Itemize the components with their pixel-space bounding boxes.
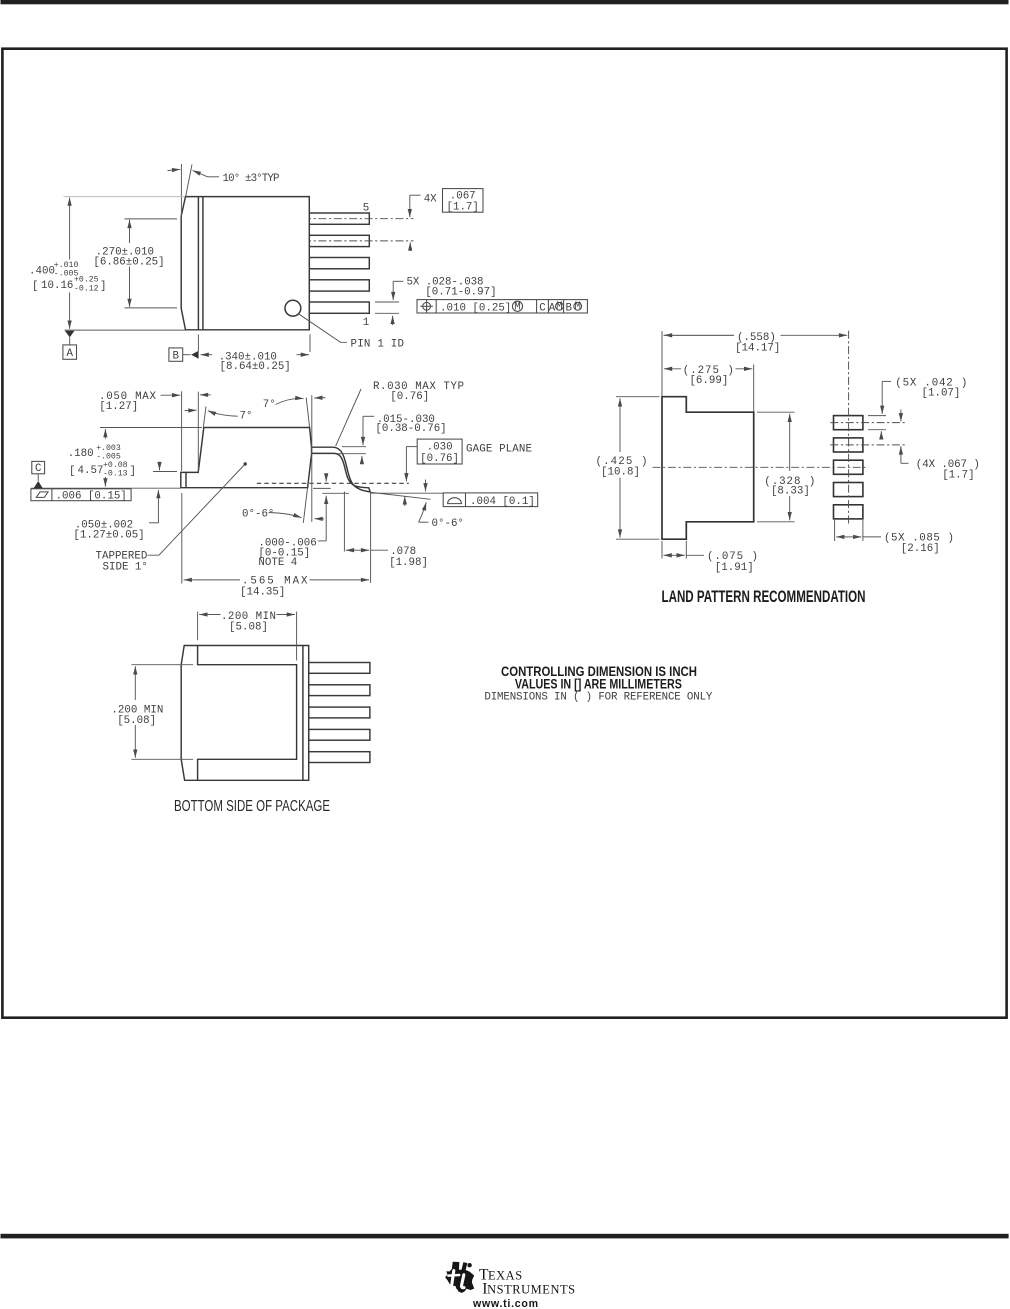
svg-text:+0.08: +0.08 <box>103 461 128 470</box>
svg-text:A: A <box>66 348 73 360</box>
svg-text:7°: 7° <box>263 399 276 411</box>
svg-text:NOTE 4: NOTE 4 <box>258 557 297 569</box>
svg-text:[14.17]: [14.17] <box>735 342 780 354</box>
svg-text:]: ] <box>100 281 106 293</box>
svg-text:4X: 4X <box>424 194 437 206</box>
svg-text:-0.12: -0.12 <box>74 285 99 294</box>
svg-text:[1.27]: [1.27] <box>99 401 138 413</box>
svg-text:[1.98]: [1.98] <box>389 557 428 569</box>
svg-text:PIN 1 ID: PIN 1 ID <box>351 338 405 350</box>
svg-text:A: A <box>549 302 556 314</box>
svg-text:4.57: 4.57 <box>78 465 104 477</box>
svg-text:0°-6°: 0°-6° <box>242 508 274 520</box>
svg-text:[0.38-0.76]: [0.38-0.76] <box>375 423 446 435</box>
svg-text:+.010: +.010 <box>54 261 79 270</box>
svg-text:0°-6°: 0°-6° <box>432 518 464 530</box>
svg-text:+.003: +.003 <box>96 444 121 453</box>
svg-text:VALUES IN [] ARE MILLIMETERS: VALUES IN [] ARE MILLIMETERS <box>515 677 682 692</box>
svg-text:[8.33]: [8.33] <box>771 485 810 497</box>
svg-text:[1.27±0.05]: [1.27±0.05] <box>73 530 144 542</box>
svg-text:[5.08]: [5.08] <box>229 621 268 633</box>
svg-text:C: C <box>539 302 546 314</box>
svg-text:[: [ <box>32 281 38 293</box>
svg-text:M: M <box>574 301 580 313</box>
svg-text:SIDE 1°: SIDE 1° <box>103 561 148 573</box>
svg-text:.180: .180 <box>68 448 94 460</box>
svg-text:1: 1 <box>363 317 369 329</box>
svg-text:[1.07]: [1.07] <box>922 388 961 400</box>
svg-text:.400: .400 <box>29 265 55 277</box>
svg-text:[14.35]: [14.35] <box>240 587 285 599</box>
svg-text:INSTRUMENTS: INSTRUMENTS <box>482 1281 575 1298</box>
svg-text:GAGE PLANE: GAGE PLANE <box>466 444 532 456</box>
svg-text:BOTTOM SIDE OF PACKAGE: BOTTOM SIDE OF PACKAGE <box>174 798 330 815</box>
svg-text:.006 [0.15]: .006 [0.15] <box>56 491 127 503</box>
svg-text:[1.7]: [1.7] <box>942 470 974 482</box>
svg-text:www.ti.com: www.ti.com <box>472 1298 538 1309</box>
svg-text:LAND PATTERN RECOMMENDATION: LAND PATTERN RECOMMENDATION <box>662 588 866 606</box>
svg-text:[1.7]: [1.7] <box>446 202 478 214</box>
svg-text:.010 [0.25]: .010 [0.25] <box>440 302 511 314</box>
svg-text:[6.86±0.25]: [6.86±0.25] <box>93 257 164 269</box>
svg-text:[10.8]: [10.8] <box>601 467 640 479</box>
svg-text:10.16: 10.16 <box>41 280 73 292</box>
svg-text:[6.99]: [6.99] <box>689 375 728 387</box>
svg-text:]: ] <box>130 466 136 478</box>
svg-text:[5.08]: [5.08] <box>117 715 156 727</box>
svg-text:B: B <box>566 302 573 314</box>
svg-text:+0.25: +0.25 <box>74 276 99 285</box>
svg-text:[0.71-0.97]: [0.71-0.97] <box>425 287 496 299</box>
svg-text:[1.91]: [1.91] <box>715 562 754 574</box>
svg-text:[2.16]: [2.16] <box>901 543 940 555</box>
svg-text:C: C <box>35 463 42 475</box>
svg-text:[: [ <box>69 466 75 478</box>
svg-text:-0.13: -0.13 <box>103 470 128 479</box>
svg-text:B: B <box>173 351 180 363</box>
svg-text:M: M <box>556 301 562 313</box>
svg-text:[0.76]: [0.76] <box>420 453 459 465</box>
svg-text:DIMENSIONS IN ( ) FOR REFERENC: DIMENSIONS IN ( ) FOR REFERENCE ONLY <box>484 692 713 704</box>
svg-text:5: 5 <box>363 203 369 215</box>
svg-text:.004 [0.1]: .004 [0.1] <box>470 496 535 508</box>
svg-text:.030: .030 <box>427 441 453 453</box>
svg-text:M: M <box>514 302 520 314</box>
svg-text:7°: 7° <box>240 410 253 422</box>
svg-text:[8.64±0.25]: [8.64±0.25] <box>220 361 291 373</box>
svg-text:[0.76]: [0.76] <box>390 391 429 403</box>
svg-text:10° ±3°TYP: 10° ±3°TYP <box>223 173 280 185</box>
